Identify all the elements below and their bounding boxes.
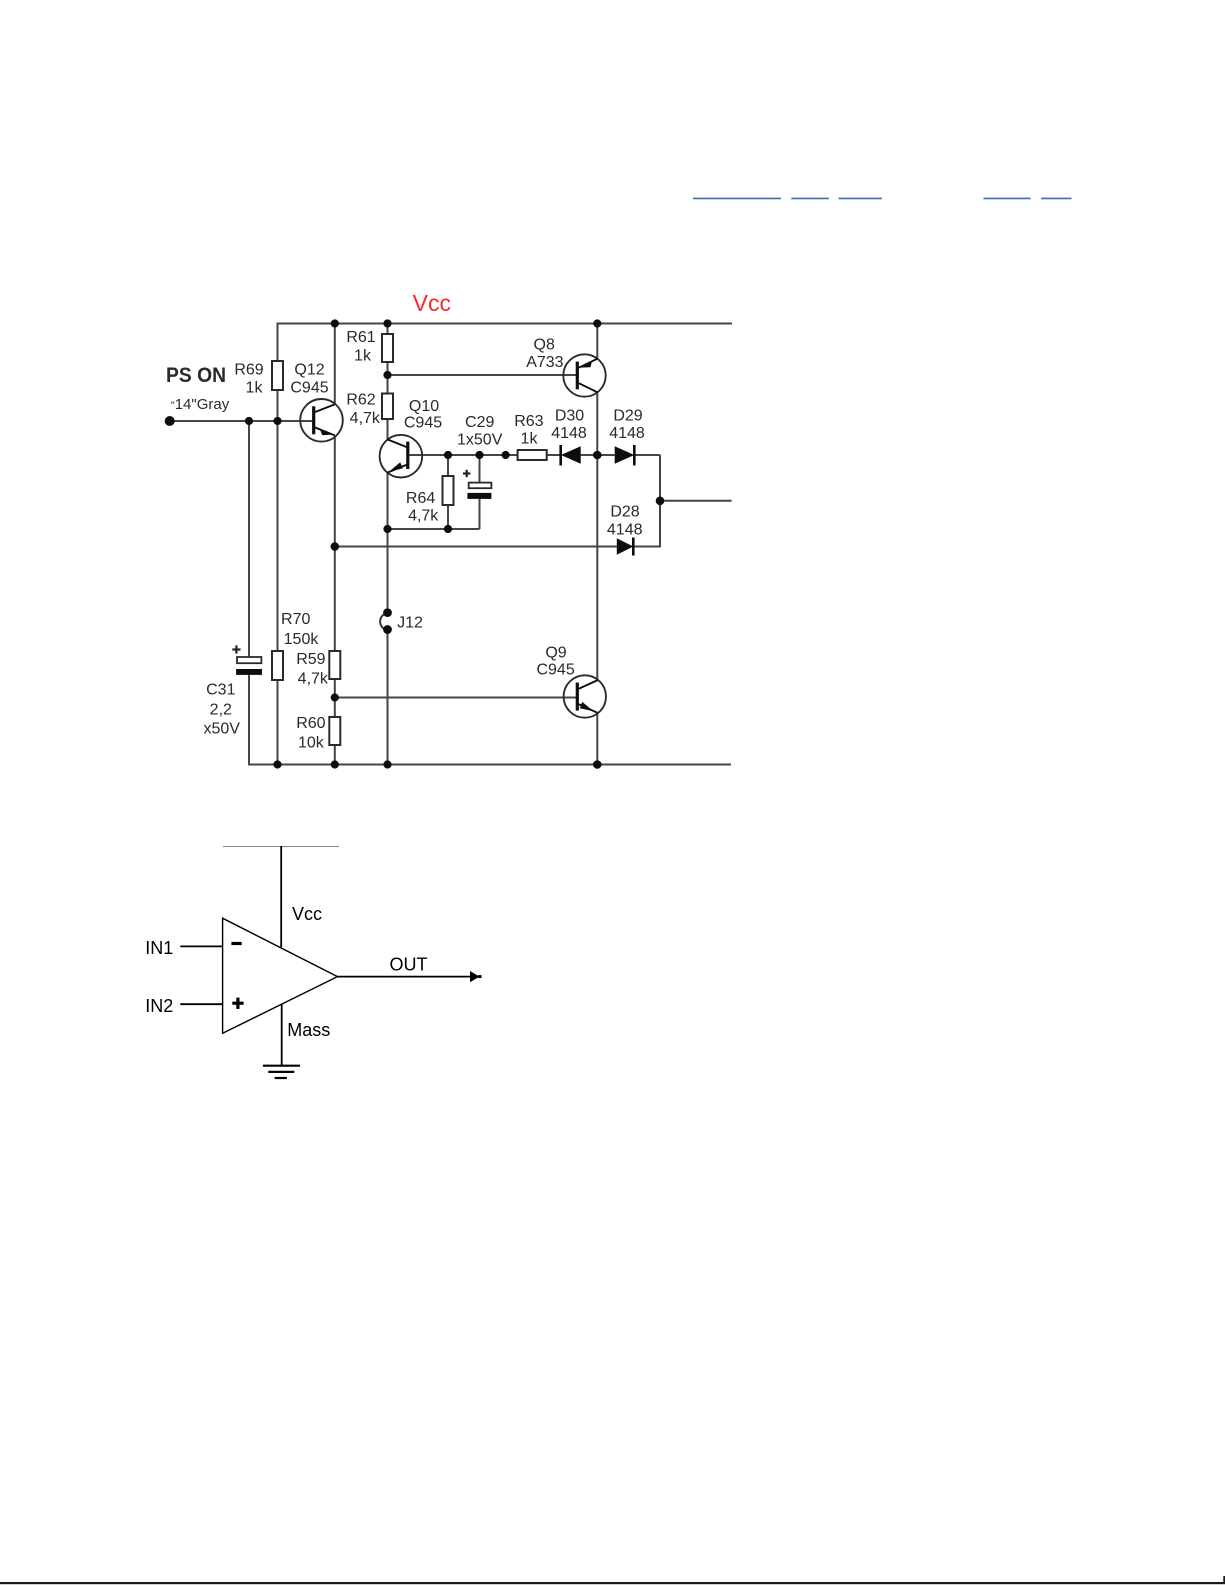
svg-text:R69: R69 (234, 362, 263, 379)
svg-text:IN2: IN2 (145, 996, 173, 1016)
svg-text:4,7k: 4,7k (298, 671, 329, 688)
svg-text:150k: 150k (284, 631, 320, 648)
svg-text:Q10: Q10 (409, 398, 439, 415)
svg-text:1x50V: 1x50V (457, 432, 503, 449)
svg-text:Mass: Mass (287, 1020, 330, 1040)
svg-text:10k: 10k (298, 735, 325, 752)
svg-text:C945: C945 (536, 662, 574, 679)
svg-text:R59: R59 (296, 651, 325, 668)
svg-text:R70: R70 (281, 611, 310, 628)
svg-text:OUT: OUT (390, 955, 428, 975)
svg-text:Q12: Q12 (294, 362, 324, 379)
svg-text:4,7k: 4,7k (408, 508, 439, 525)
svg-text:Q8: Q8 (534, 337, 555, 354)
svg-text:Q9: Q9 (545, 645, 566, 662)
svg-text:C31: C31 (206, 682, 235, 699)
svg-text:R64: R64 (406, 490, 435, 507)
svg-text:J12: J12 (397, 615, 423, 632)
svg-text:C29: C29 (465, 414, 494, 431)
svg-text:1k: 1k (246, 380, 264, 397)
svg-text:x50V: x50V (203, 721, 240, 738)
svg-text:R62: R62 (346, 392, 375, 409)
svg-text:2,2: 2,2 (210, 702, 232, 719)
svg-text:PS ON: PS ON (166, 363, 226, 387)
svg-text:C945: C945 (290, 380, 328, 397)
svg-text:A733: A733 (526, 354, 563, 371)
svg-text:IN1: IN1 (145, 938, 173, 958)
svg-text:R61: R61 (346, 329, 375, 346)
svg-text:Vcc: Vcc (413, 290, 451, 316)
svg-text:C945: C945 (404, 415, 442, 432)
svg-text:4148: 4148 (551, 425, 587, 442)
svg-text:R63: R63 (514, 413, 543, 430)
svg-text:D30: D30 (555, 408, 584, 425)
svg-text:4148: 4148 (609, 425, 645, 442)
svg-text:"14"Gray: "14"Gray (171, 396, 230, 413)
svg-text:D28: D28 (610, 504, 639, 521)
svg-text:4148: 4148 (607, 522, 643, 539)
svg-text:1k: 1k (354, 348, 372, 365)
svg-text:4,7k: 4,7k (350, 410, 381, 427)
svg-text:1k: 1k (521, 431, 539, 448)
svg-text:D29: D29 (613, 408, 642, 425)
svg-text:Vcc: Vcc (292, 904, 322, 924)
svg-text:R60: R60 (296, 715, 325, 732)
